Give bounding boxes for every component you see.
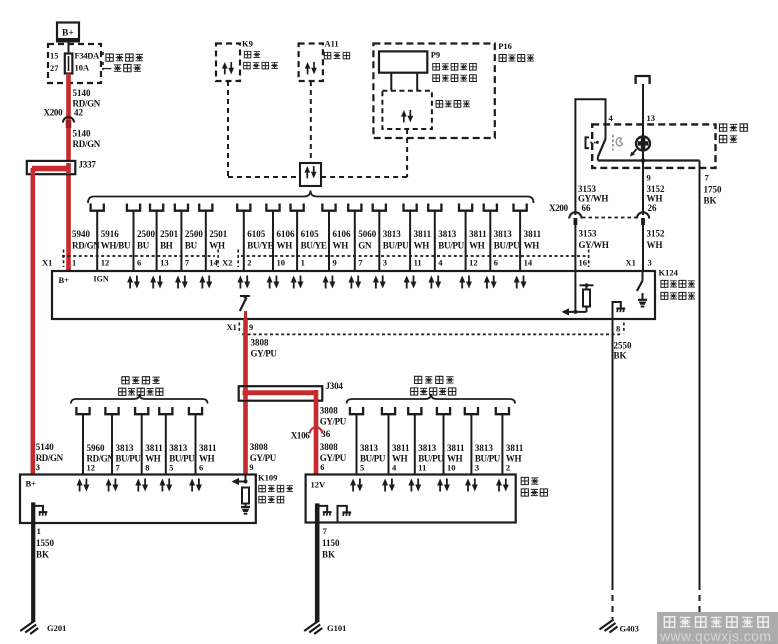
svg-text:1: 1 xyxy=(301,258,305,268)
svg-text:G201: G201 xyxy=(47,623,66,633)
svg-text:3152: 3152 xyxy=(647,184,666,194)
svg-text:BU/PU: BU/PU xyxy=(383,241,409,251)
svg-text:BK: BK xyxy=(36,550,49,560)
svg-text:12V: 12V xyxy=(311,480,327,490)
svg-text:3808: 3808 xyxy=(250,442,268,452)
svg-text:5140: 5140 xyxy=(36,442,55,452)
svg-text:6: 6 xyxy=(494,258,498,268)
svg-text:X106: X106 xyxy=(291,431,311,441)
svg-text:2500: 2500 xyxy=(185,229,204,239)
svg-text:14: 14 xyxy=(209,258,218,268)
svg-text:6: 6 xyxy=(137,258,141,268)
svg-text:7: 7 xyxy=(323,526,328,536)
svg-text:3153: 3153 xyxy=(579,229,598,239)
svg-text:WH: WH xyxy=(647,240,663,250)
svg-text:16: 16 xyxy=(579,258,588,268)
svg-text:5140: 5140 xyxy=(73,88,92,98)
svg-text:15: 15 xyxy=(50,51,59,61)
svg-text:P16: P16 xyxy=(498,41,512,51)
svg-text:5060: 5060 xyxy=(358,229,377,239)
svg-text:7: 7 xyxy=(358,258,363,268)
svg-text:X1: X1 xyxy=(227,322,237,332)
svg-text:BU: BU xyxy=(185,241,198,251)
svg-text:3813: 3813 xyxy=(475,443,494,453)
svg-text:12: 12 xyxy=(87,463,96,473)
svg-text:BK: BK xyxy=(614,351,627,361)
svg-text:3813: 3813 xyxy=(494,229,512,239)
svg-text:GY/WH: GY/WH xyxy=(578,194,608,204)
svg-text:3808: 3808 xyxy=(320,442,339,452)
svg-text:5916: 5916 xyxy=(101,229,120,239)
svg-text:X1: X1 xyxy=(626,258,636,268)
svg-text:K109: K109 xyxy=(258,473,277,483)
svg-text:11: 11 xyxy=(414,258,422,268)
svg-text:1550: 1550 xyxy=(36,538,55,548)
svg-text:WH: WH xyxy=(524,241,540,251)
svg-text:5960: 5960 xyxy=(87,443,106,453)
svg-text:10: 10 xyxy=(277,258,286,268)
svg-text:WH: WH xyxy=(414,241,430,251)
svg-text:1: 1 xyxy=(37,526,41,536)
svg-text:WH: WH xyxy=(469,241,485,251)
svg-text:26: 26 xyxy=(648,203,658,213)
svg-text:K9: K9 xyxy=(242,39,253,49)
svg-text:BU/PU: BU/PU xyxy=(438,241,464,251)
svg-text:3811: 3811 xyxy=(447,443,465,453)
svg-text:X1: X1 xyxy=(42,258,52,268)
svg-text:GY/PU: GY/PU xyxy=(250,453,277,463)
svg-text:10A: 10A xyxy=(75,63,91,73)
svg-text:1: 1 xyxy=(72,258,76,268)
svg-text:12: 12 xyxy=(469,258,478,268)
svg-text:27: 27 xyxy=(50,63,59,73)
svg-text:X200: X200 xyxy=(44,108,64,118)
svg-text:G403: G403 xyxy=(620,624,639,634)
svg-text:BK: BK xyxy=(704,196,717,206)
svg-text:9: 9 xyxy=(647,173,651,183)
svg-text:3811: 3811 xyxy=(506,443,524,453)
svg-text:5140: 5140 xyxy=(73,129,92,139)
svg-text:2: 2 xyxy=(247,258,251,268)
svg-text:IGN: IGN xyxy=(94,275,109,284)
svg-text:WH: WH xyxy=(277,241,293,251)
svg-text:3813: 3813 xyxy=(116,443,135,453)
svg-text:J337: J337 xyxy=(79,160,97,170)
svg-text:10: 10 xyxy=(447,463,456,473)
svg-text:3811: 3811 xyxy=(392,443,410,453)
svg-text:3811: 3811 xyxy=(469,229,487,239)
svg-text:8: 8 xyxy=(616,324,620,334)
svg-text:3152: 3152 xyxy=(647,229,666,239)
svg-text:2501: 2501 xyxy=(209,229,228,239)
svg-text:F34DA: F34DA xyxy=(75,51,101,61)
svg-text:P9: P9 xyxy=(431,50,440,60)
svg-text:7: 7 xyxy=(185,258,190,268)
svg-text:3811: 3811 xyxy=(199,443,217,453)
svg-text:8: 8 xyxy=(145,463,149,473)
svg-text:3: 3 xyxy=(648,258,652,268)
svg-text:9: 9 xyxy=(249,462,253,472)
svg-text:4: 4 xyxy=(438,258,443,268)
svg-text:B+: B+ xyxy=(26,479,37,489)
svg-text:GY/PU: GY/PU xyxy=(251,349,278,359)
svg-text:3: 3 xyxy=(383,258,387,268)
svg-text:3813: 3813 xyxy=(383,229,402,239)
svg-text:66: 66 xyxy=(582,203,592,213)
svg-text:RD/GN: RD/GN xyxy=(72,241,100,251)
svg-text:2500: 2500 xyxy=(137,229,156,239)
svg-text:3808: 3808 xyxy=(320,406,339,416)
svg-text:6105: 6105 xyxy=(247,229,265,239)
svg-text:BU/YE: BU/YE xyxy=(301,241,327,251)
svg-text:5940: 5940 xyxy=(72,229,91,239)
svg-text:WH: WH xyxy=(209,241,225,251)
svg-text:B+: B+ xyxy=(62,29,74,39)
svg-text:13: 13 xyxy=(647,113,656,123)
svg-text:www.qcwxjs.com: www.qcwxjs.com xyxy=(659,628,771,644)
svg-text:3813: 3813 xyxy=(169,443,188,453)
svg-text:A11: A11 xyxy=(325,39,339,49)
svg-text:3811: 3811 xyxy=(414,229,432,239)
svg-text:36: 36 xyxy=(321,429,331,439)
svg-text:3: 3 xyxy=(475,463,479,473)
svg-text:11: 11 xyxy=(418,463,426,473)
svg-text:X200: X200 xyxy=(549,203,569,213)
svg-text:BU: BU xyxy=(137,241,150,251)
svg-text:GY/PU: GY/PU xyxy=(320,417,347,427)
svg-text:9: 9 xyxy=(249,322,253,332)
svg-text:G101: G101 xyxy=(327,623,346,633)
svg-text:6: 6 xyxy=(199,463,203,473)
svg-text:BU/PU: BU/PU xyxy=(494,241,520,251)
svg-text:12: 12 xyxy=(101,258,110,268)
svg-text:K124: K124 xyxy=(659,268,679,278)
svg-text:BH: BH xyxy=(160,241,173,251)
svg-text:RD/GN: RD/GN xyxy=(73,139,101,149)
svg-text:6106: 6106 xyxy=(333,229,352,239)
svg-text:2501: 2501 xyxy=(160,229,179,239)
svg-text:3813: 3813 xyxy=(418,443,437,453)
svg-text:6106: 6106 xyxy=(277,229,296,239)
svg-text:WH/BU: WH/BU xyxy=(101,241,131,251)
svg-text:BU/YE: BU/YE xyxy=(247,241,273,251)
svg-text:6105: 6105 xyxy=(301,229,320,239)
svg-text:6: 6 xyxy=(320,462,324,472)
svg-text:5: 5 xyxy=(169,463,173,473)
svg-text:GN: GN xyxy=(358,241,372,251)
svg-text:14: 14 xyxy=(524,258,533,268)
svg-text:WH: WH xyxy=(647,194,663,204)
svg-text:9: 9 xyxy=(333,258,337,268)
svg-text:2: 2 xyxy=(506,463,510,473)
svg-text:1150: 1150 xyxy=(322,538,340,548)
svg-text:3811: 3811 xyxy=(145,443,163,453)
svg-text:2550: 2550 xyxy=(614,341,633,351)
svg-text:5: 5 xyxy=(360,463,364,473)
svg-text:J304: J304 xyxy=(326,381,344,391)
svg-text:13: 13 xyxy=(160,258,169,268)
svg-text:3153: 3153 xyxy=(578,184,597,194)
svg-text:WH: WH xyxy=(333,241,349,251)
svg-text:BK: BK xyxy=(322,550,335,560)
svg-text:3813: 3813 xyxy=(438,229,457,239)
svg-text:3808: 3808 xyxy=(251,338,270,348)
svg-text:42: 42 xyxy=(74,108,84,118)
svg-text:3811: 3811 xyxy=(524,229,542,239)
svg-text:1750: 1750 xyxy=(704,185,723,195)
svg-text:B+: B+ xyxy=(59,275,70,285)
svg-text:GY/WH: GY/WH xyxy=(579,240,609,250)
svg-text:3: 3 xyxy=(36,462,40,472)
svg-text:X2: X2 xyxy=(222,258,232,268)
svg-text:3813: 3813 xyxy=(360,443,379,453)
